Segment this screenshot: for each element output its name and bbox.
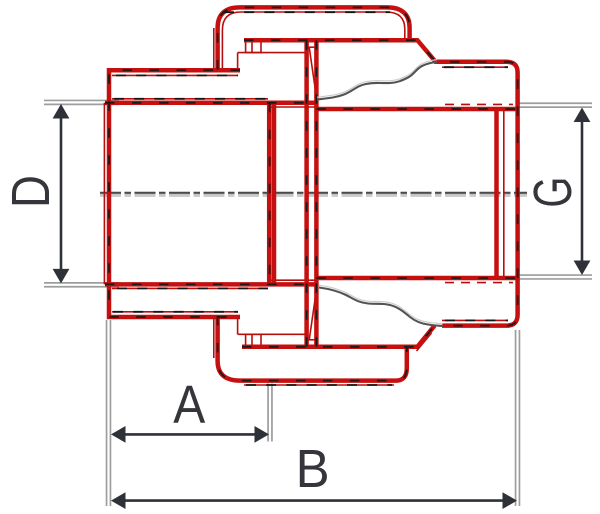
svg-text:G: G	[524, 177, 583, 208]
svg-text:D: D	[2, 175, 61, 208]
svg-text:B: B	[296, 440, 330, 499]
svg-text:A: A	[173, 376, 205, 435]
